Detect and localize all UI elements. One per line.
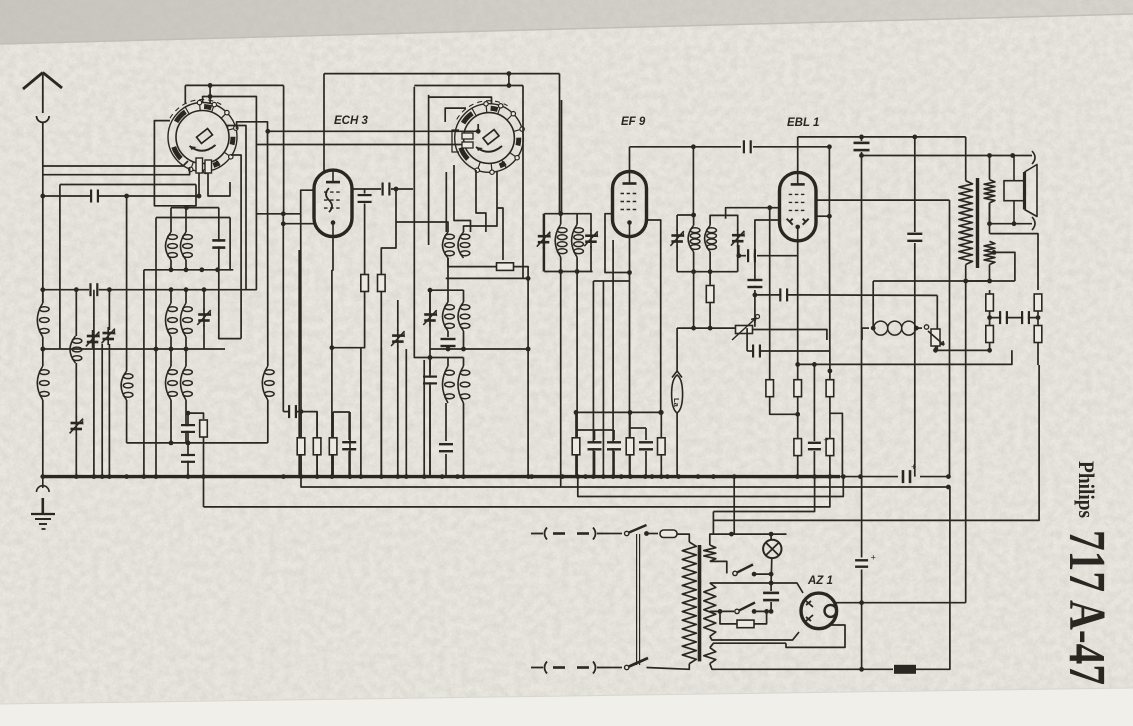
wire IF1 trim right col (577, 214, 591, 231)
wire tone caps rail (990, 317, 1038, 319)
wire rail 442.9 (127, 442, 268, 444)
mains switch upper (625, 525, 647, 536)
wire tone rail 350 ext (936, 349, 990, 351)
wire speaker rail bottom (990, 223, 1033, 225)
wire L8 top (170, 290, 172, 303)
junction dots avc2 (40, 287, 206, 292)
coil L2 (37, 366, 49, 400)
wire r20 jog (830, 413, 843, 476)
wire lad2 646b (645, 451, 647, 477)
wire heater rail B (710, 664, 862, 670)
wire ground bus (43, 475, 840, 478)
wire lad2 594a (594, 430, 596, 440)
wire col 283 avc (282, 214, 284, 412)
wire col 102 (101, 344, 103, 477)
wire rail 349b (430, 348, 528, 350)
capacitor C27 (439, 443, 453, 452)
wire HT centre tap (710, 610, 734, 612)
resistor R6 (297, 438, 305, 455)
wire rail Q left drop (155, 218, 157, 350)
wire S2 down c (476, 170, 486, 232)
junction dots H1 (507, 71, 512, 88)
wire EF9 top rail (630, 146, 742, 148)
wire col 397 bot (397, 346, 399, 477)
resistor R4 (horizontal) (497, 263, 514, 271)
wire volume rail2 (752, 330, 827, 341)
wire ladder stub 317 (316, 412, 318, 437)
junction dots sw1m (644, 531, 649, 536)
wire lad2 661b (660, 455, 662, 477)
wire col 381 top (381, 222, 396, 275)
power transformer heater winding (704, 648, 716, 664)
wire L13 bottom (447, 258, 449, 302)
wire trimmer C7 top (203, 290, 205, 310)
wire col 424 (423, 360, 425, 477)
coil L20 (572, 224, 584, 257)
wire S1 line3 (60, 184, 196, 186)
wire ECH3 grid right (352, 188, 381, 190)
svg-text:EBL 1: EBL 1 (787, 117, 819, 129)
wire ground bus extension to PSU column (920, 476, 948, 478)
wire ladder stub 301 (300, 412, 302, 437)
capacitor C39 (358, 194, 372, 203)
junction dots c16 dot (428, 355, 433, 360)
wire sub rail 3 (204, 477, 830, 507)
wire col 156 (155, 349, 157, 477)
lamp shunt switch (733, 565, 753, 576)
wire det line 351 (747, 350, 752, 352)
wire col 693 from rail (692, 147, 694, 215)
wire AVC line 1 cont (99, 195, 199, 197)
wire r22 bot (829, 456, 831, 477)
wire col 76 trimmer line b (75, 363, 77, 418)
wire AZ1 cathode out (835, 602, 966, 604)
junction dots elcap (859, 667, 864, 672)
wire L10 bottom (170, 400, 172, 443)
label EBL1 (787, 117, 819, 129)
junction dots if0top (184, 205, 189, 210)
speaker terminal bottom (1032, 217, 1035, 230)
capacitor C1 (90, 190, 99, 203)
junction dots g189 (394, 187, 399, 192)
wire IF1 sec bot (576, 257, 578, 271)
wire pilot top lead (770, 534, 772, 540)
wire EBL1 cathode (797, 241, 799, 381)
wire mains upper line3 (677, 534, 689, 542)
wire col 693 bottom (693, 272, 695, 328)
junction dots c661 (658, 410, 663, 415)
wire S1 left box (154, 121, 196, 206)
coil L11 (181, 366, 193, 400)
resistor R2 (361, 275, 369, 292)
junction dots rail442 (169, 441, 191, 446)
wire mains upper line (609, 533, 622, 535)
wire col 381b (380, 348, 382, 477)
wire r21 bot (797, 456, 799, 477)
wire lad2 646a (645, 428, 647, 440)
trimmer C7 (197, 309, 211, 327)
dial lamp La (672, 371, 683, 413)
text aa filter (0, 0, 1, 1)
wire col 739 (738, 245, 740, 256)
label EF9 (621, 116, 646, 128)
wire col 949 from g2 (949, 200, 951, 477)
wire S2 box 3 (445, 108, 466, 122)
wire sec lower loop (990, 234, 1039, 290)
wire g2 corner (949, 199, 951, 201)
wire col 301 (300, 214, 302, 477)
junction dots hv rail (859, 153, 864, 158)
wire L18 bot (463, 403, 465, 477)
wire mains upper line2 (647, 533, 659, 535)
wire det line 255b (757, 255, 798, 257)
output transformer primary (field coil) (959, 181, 973, 265)
wire col 446 cap (445, 403, 447, 441)
wire lad2 630b (629, 455, 631, 477)
resistor R22 (826, 439, 834, 456)
junction dots ef9k (627, 270, 632, 275)
wire col 413 (414, 245, 463, 358)
junction dots g213 (281, 211, 286, 216)
wire col 528 (527, 278, 529, 476)
wire surge resistor line (862, 668, 893, 670)
trimmer C21 (731, 229, 745, 247)
fuse F1 (660, 530, 677, 538)
wire S2 feed line B (257, 144, 464, 146)
junction dots pilot583 (769, 581, 774, 586)
mains switch lower (625, 658, 649, 670)
wire L9 top (185, 290, 187, 303)
wire S1 line3 left drop (59, 185, 61, 350)
coil L10 (166, 366, 178, 400)
wire col 914 down (914, 137, 916, 232)
wire ECH3 osc grid line (283, 223, 314, 225)
mains plug upper (531, 528, 609, 540)
power transformer core (698, 545, 702, 661)
wire col 406 (405, 349, 407, 477)
wire col 144 (143, 270, 145, 477)
wire S1 bottom pin drop b (208, 173, 230, 196)
resistor R12 (986, 294, 994, 311)
wire col 76 bottom (75, 434, 77, 477)
resistor R20 (826, 380, 834, 397)
junction dots rail349 (154, 347, 189, 352)
wire S1 top rail left drop (184, 85, 186, 104)
wire IF1 trim left col (543, 214, 545, 231)
capacitor C36 (763, 592, 779, 602)
junction dots fb364 (795, 362, 832, 373)
wire ECH3 cathode (332, 237, 333, 270)
wire col 630 down (629, 273, 631, 477)
coil L13 (443, 232, 455, 258)
capacitor C34 (999, 311, 1008, 324)
wire L6 bottom (185, 260, 187, 270)
capacitor C25 (752, 345, 761, 358)
mains plug lower (531, 662, 609, 674)
wire el cap col (861, 477, 863, 558)
junction dots choke (871, 326, 919, 331)
wire col 203 to S3 (203, 437, 205, 507)
resistor R14 (1034, 294, 1042, 311)
tube EBL1 (780, 172, 817, 241)
wire S1 bottom pin drop a (198, 173, 200, 196)
wire tone top rail (798, 294, 937, 297)
junction dots tone (987, 315, 1040, 352)
wire heater rail A (710, 643, 786, 648)
label 717 A-47 (1058, 530, 1115, 685)
coil L4 (121, 371, 133, 400)
wire IF1 top rail (544, 213, 577, 215)
wire sub rail 3b (713, 477, 814, 512)
wire grid cap stub (364, 189, 366, 194)
wire lad2 594 link (576, 429, 614, 431)
wire cap c16 links2 (429, 386, 431, 477)
wire IF2 sec bot (709, 252, 711, 272)
wire L10 top (170, 349, 172, 366)
wire L15 bot (447, 331, 449, 337)
wire col 829 up (828, 147, 830, 216)
wire pot rail 281 (873, 280, 989, 282)
junction dots c770 (767, 205, 772, 210)
wire surge resistor line2 (916, 620, 950, 669)
coil L5 (166, 232, 178, 260)
wire osc resistor link2 (514, 267, 528, 279)
resistor R19 (794, 380, 802, 397)
wire pot p2 bottom (935, 346, 937, 350)
junction dots if2bot (691, 269, 712, 274)
wire S2 right rail (522, 86, 524, 279)
wire S2 box 2 (429, 97, 492, 104)
coil L14 (458, 232, 470, 258)
capacitor C10 (288, 405, 297, 418)
coil L9 (181, 303, 193, 337)
wire det cap col (754, 280, 756, 287)
wire tone col 989 bot (989, 343, 991, 351)
wire L16 top (463, 290, 465, 302)
resistor R16 (horizontal) (737, 620, 754, 628)
wire AVC line 1 (43, 195, 90, 197)
wire col 861 cap (861, 137, 863, 141)
wire IF2 prim bot (693, 252, 695, 272)
output transformer core (976, 178, 979, 268)
wire S2 box outer left drop (413, 87, 415, 245)
wire L15 bot2 (447, 348, 449, 349)
wire det line 295 (755, 294, 798, 296)
wire col 964 up (965, 602, 967, 604)
wire r19 links (797, 397, 799, 439)
wire choke rail right (916, 327, 922, 329)
wire col 267 bottom (267, 400, 269, 443)
junction dots pot rail (691, 326, 712, 331)
wire ladder stub 301b (300, 455, 302, 477)
junction dots if1bot (558, 269, 579, 274)
capacitor C2 (89, 283, 98, 296)
resistor R3 (378, 275, 386, 292)
coil L1 (37, 303, 49, 337)
wire tone col 989 mid (989, 311, 991, 326)
wire ladder stub 349b (348, 451, 350, 477)
wire col 396 (395, 189, 397, 222)
wire R5 bot (709, 303, 711, 329)
coil L16 (458, 302, 470, 331)
wire L17 top stub (447, 358, 449, 367)
wire L14 top (464, 208, 498, 232)
wire L9 bottom (185, 337, 187, 349)
wire EF9 top rail2 (753, 146, 828, 148)
capacitor C8 (181, 424, 195, 433)
wire anode rail to transformer (965, 137, 967, 181)
resistor R17 (surge, solid) (894, 665, 916, 674)
wire lad2 594b (594, 451, 596, 477)
wire col 364 top (364, 204, 366, 275)
capacitor C29 (607, 441, 621, 450)
svg-text:ECH 3: ECH 3 (334, 115, 368, 127)
junction dots ant tap (40, 347, 45, 352)
junction dots r jog (795, 412, 800, 417)
wire transformer bottom down (965, 281, 967, 603)
wire L8 bottom (170, 337, 172, 349)
wire cap c16 links (429, 358, 431, 375)
capacitor C33 (907, 233, 922, 242)
wire HT top rail (710, 583, 803, 593)
wire col 734 psu (733, 477, 735, 534)
wire pilot bottom lead (770, 558, 773, 583)
wire HT bottom rail (710, 632, 799, 640)
wire r20 top (829, 371, 831, 380)
speaker terminal top (1032, 151, 1035, 164)
junction dots shunt (752, 572, 774, 577)
junction dots pot281 (987, 279, 992, 284)
S1 wafer contact b (205, 160, 212, 173)
svg-text:AZ 1: AZ 1 (807, 575, 833, 587)
wire col 755 down (754, 295, 756, 327)
junction dots det255 (736, 253, 741, 258)
trimmer C5 (102, 327, 116, 345)
wire L13 top (396, 222, 448, 232)
resistor R9 (572, 438, 580, 455)
wire ECH3 grid right2 (391, 188, 413, 190)
wire IF1 trim right col b (590, 246, 592, 272)
wire col 747 (746, 328, 748, 351)
wire EF9 anode up (629, 147, 631, 172)
electrolytic C37 (855, 553, 876, 568)
wire R5 top (709, 272, 711, 286)
junction dots if1top (558, 211, 563, 216)
capacitor C13 (441, 338, 456, 347)
coil L3 (70, 336, 82, 363)
wire S1 feed from antenna (43, 161, 188, 166)
junction dots tr bot (963, 279, 968, 284)
wire EF9 cathode (629, 237, 631, 273)
resistor R1 (200, 420, 208, 437)
trimmer C14 (423, 309, 437, 327)
wire col 360 (360, 348, 362, 477)
wire r20 links (829, 397, 831, 439)
wire r20 top rail (829, 370, 831, 372)
wire IF1 trim left col b (543, 247, 545, 272)
coil L12 (262, 366, 274, 400)
wire IF2 top rail (677, 214, 694, 216)
wire r18 jog (770, 397, 798, 415)
wire S2 down d (497, 171, 503, 260)
svg-text:+: + (823, 435, 828, 445)
wire feedback rail 364.8 (798, 350, 1012, 364)
capacitor C11 (382, 183, 391, 196)
wire el cap col2 (861, 570, 863, 670)
wire r16 loop (720, 611, 737, 624)
wire col 188 (187, 413, 189, 477)
wire col 94 (93, 290, 95, 477)
wire col 593 down (592, 281, 594, 477)
wire S1 lower feed (43, 167, 190, 175)
wire col 430 (429, 290, 431, 476)
wire sec tap (994, 252, 1015, 281)
wire HT bottom (709, 635, 711, 637)
wire IF2 sec top to EBL1 grid (726, 208, 770, 219)
electrolytic C38 (808, 435, 829, 450)
wire IF2 trim bot (676, 246, 678, 272)
wire lad2 630a (629, 412, 631, 438)
wire L5 top (170, 208, 172, 232)
wire S1 top pin (209, 85, 211, 103)
wire tone col 1038 bot (1037, 343, 1039, 366)
wire tone col 1038 mid (1037, 311, 1039, 326)
wire rail 349 (60, 348, 225, 350)
junction dots S2A (476, 129, 481, 134)
page top edge band (0, 0, 1133, 44)
junction dots az1k (859, 600, 864, 605)
coil L22 (705, 225, 717, 251)
junction dots ebl1 829 cap (827, 144, 832, 149)
wire EBL1 bottom right link (816, 215, 830, 217)
capacitor C26 (342, 441, 356, 450)
wire ant tap link (43, 348, 60, 350)
junction dots pilot rail dots (729, 532, 773, 537)
wire ECH3 anode to top rail (323, 74, 325, 172)
wire c36 links2 (770, 602, 772, 611)
junction dots c290 (299, 409, 304, 414)
resistor R7 (313, 438, 321, 455)
junction dots osc grid (281, 221, 286, 226)
junction dots ct (718, 609, 723, 614)
resistor R5 (706, 286, 714, 303)
wire col 829 down (828, 216, 831, 371)
wire rail Q right drop (229, 218, 231, 270)
svg-text:717 A-47: 717 A-47 (1058, 530, 1115, 685)
wire sec top stub (989, 156, 991, 180)
wire col 350 (349, 412, 351, 477)
junction dots det (751, 253, 757, 297)
wire ECH3 grid left (301, 190, 314, 214)
wire S1 top rail (185, 84, 283, 86)
wire AZ1 heater loop (786, 625, 845, 647)
wire shunt sw out (754, 573, 771, 575)
wire mains lower line2 (647, 664, 690, 670)
wire L6 top (185, 208, 187, 232)
resistor R18 (766, 380, 774, 397)
wire col 577 down (576, 272, 578, 477)
wire spk rail bot left (989, 203, 991, 224)
coil L18 (458, 366, 470, 403)
wire IF2 prim top (693, 215, 695, 225)
capacitor C9 (181, 454, 195, 463)
rotary wafer switch S2 (455, 101, 525, 175)
wire AVC line 2 cont (99, 289, 257, 291)
coil L19 (555, 224, 567, 257)
wire rail Q (156, 217, 230, 219)
label Philips (1074, 461, 1099, 518)
wire HV rail 155 (862, 155, 1033, 157)
